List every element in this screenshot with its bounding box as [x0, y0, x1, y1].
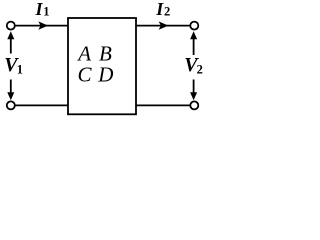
voltage V1 lower arrow (points down to port1 bottom terminal) [10, 80, 12, 96]
wire: top-left terminal to box [15, 25, 68, 27]
current arrow I2 on top-right wire [159, 21, 169, 29]
terminal: port 2 bottom [190, 101, 198, 109]
voltage V1 upper arrow (points up to port1 top terminal) [10, 37, 12, 54]
voltage V2 upper arrow (points up to port2 top terminal) [193, 37, 195, 56]
terminal: port 2 top [190, 22, 198, 30]
svg-text:1: 1 [43, 5, 49, 19]
svg-text:1: 1 [17, 63, 23, 77]
two-port network box U1 (ABCD parameters) [68, 18, 136, 114]
wire: bottom-left terminal to box [15, 104, 68, 106]
wire: box to top-right terminal [136, 25, 190, 27]
svg-text:I: I [35, 0, 44, 19]
terminal: port 1 top [7, 22, 15, 30]
current arrow I1 on top-left wire [38, 21, 48, 29]
svg-text:D: D [97, 62, 113, 86]
svg-text:C: C [78, 63, 93, 87]
svg-text:2: 2 [197, 63, 203, 77]
wire: box to bottom-right terminal [136, 104, 190, 106]
svg-text:I: I [155, 0, 164, 19]
svg-text:2: 2 [164, 5, 170, 19]
terminal: port 1 bottom [7, 101, 15, 109]
voltage V2 lower arrow (points down to port2 bottom terminal) [193, 80, 195, 96]
